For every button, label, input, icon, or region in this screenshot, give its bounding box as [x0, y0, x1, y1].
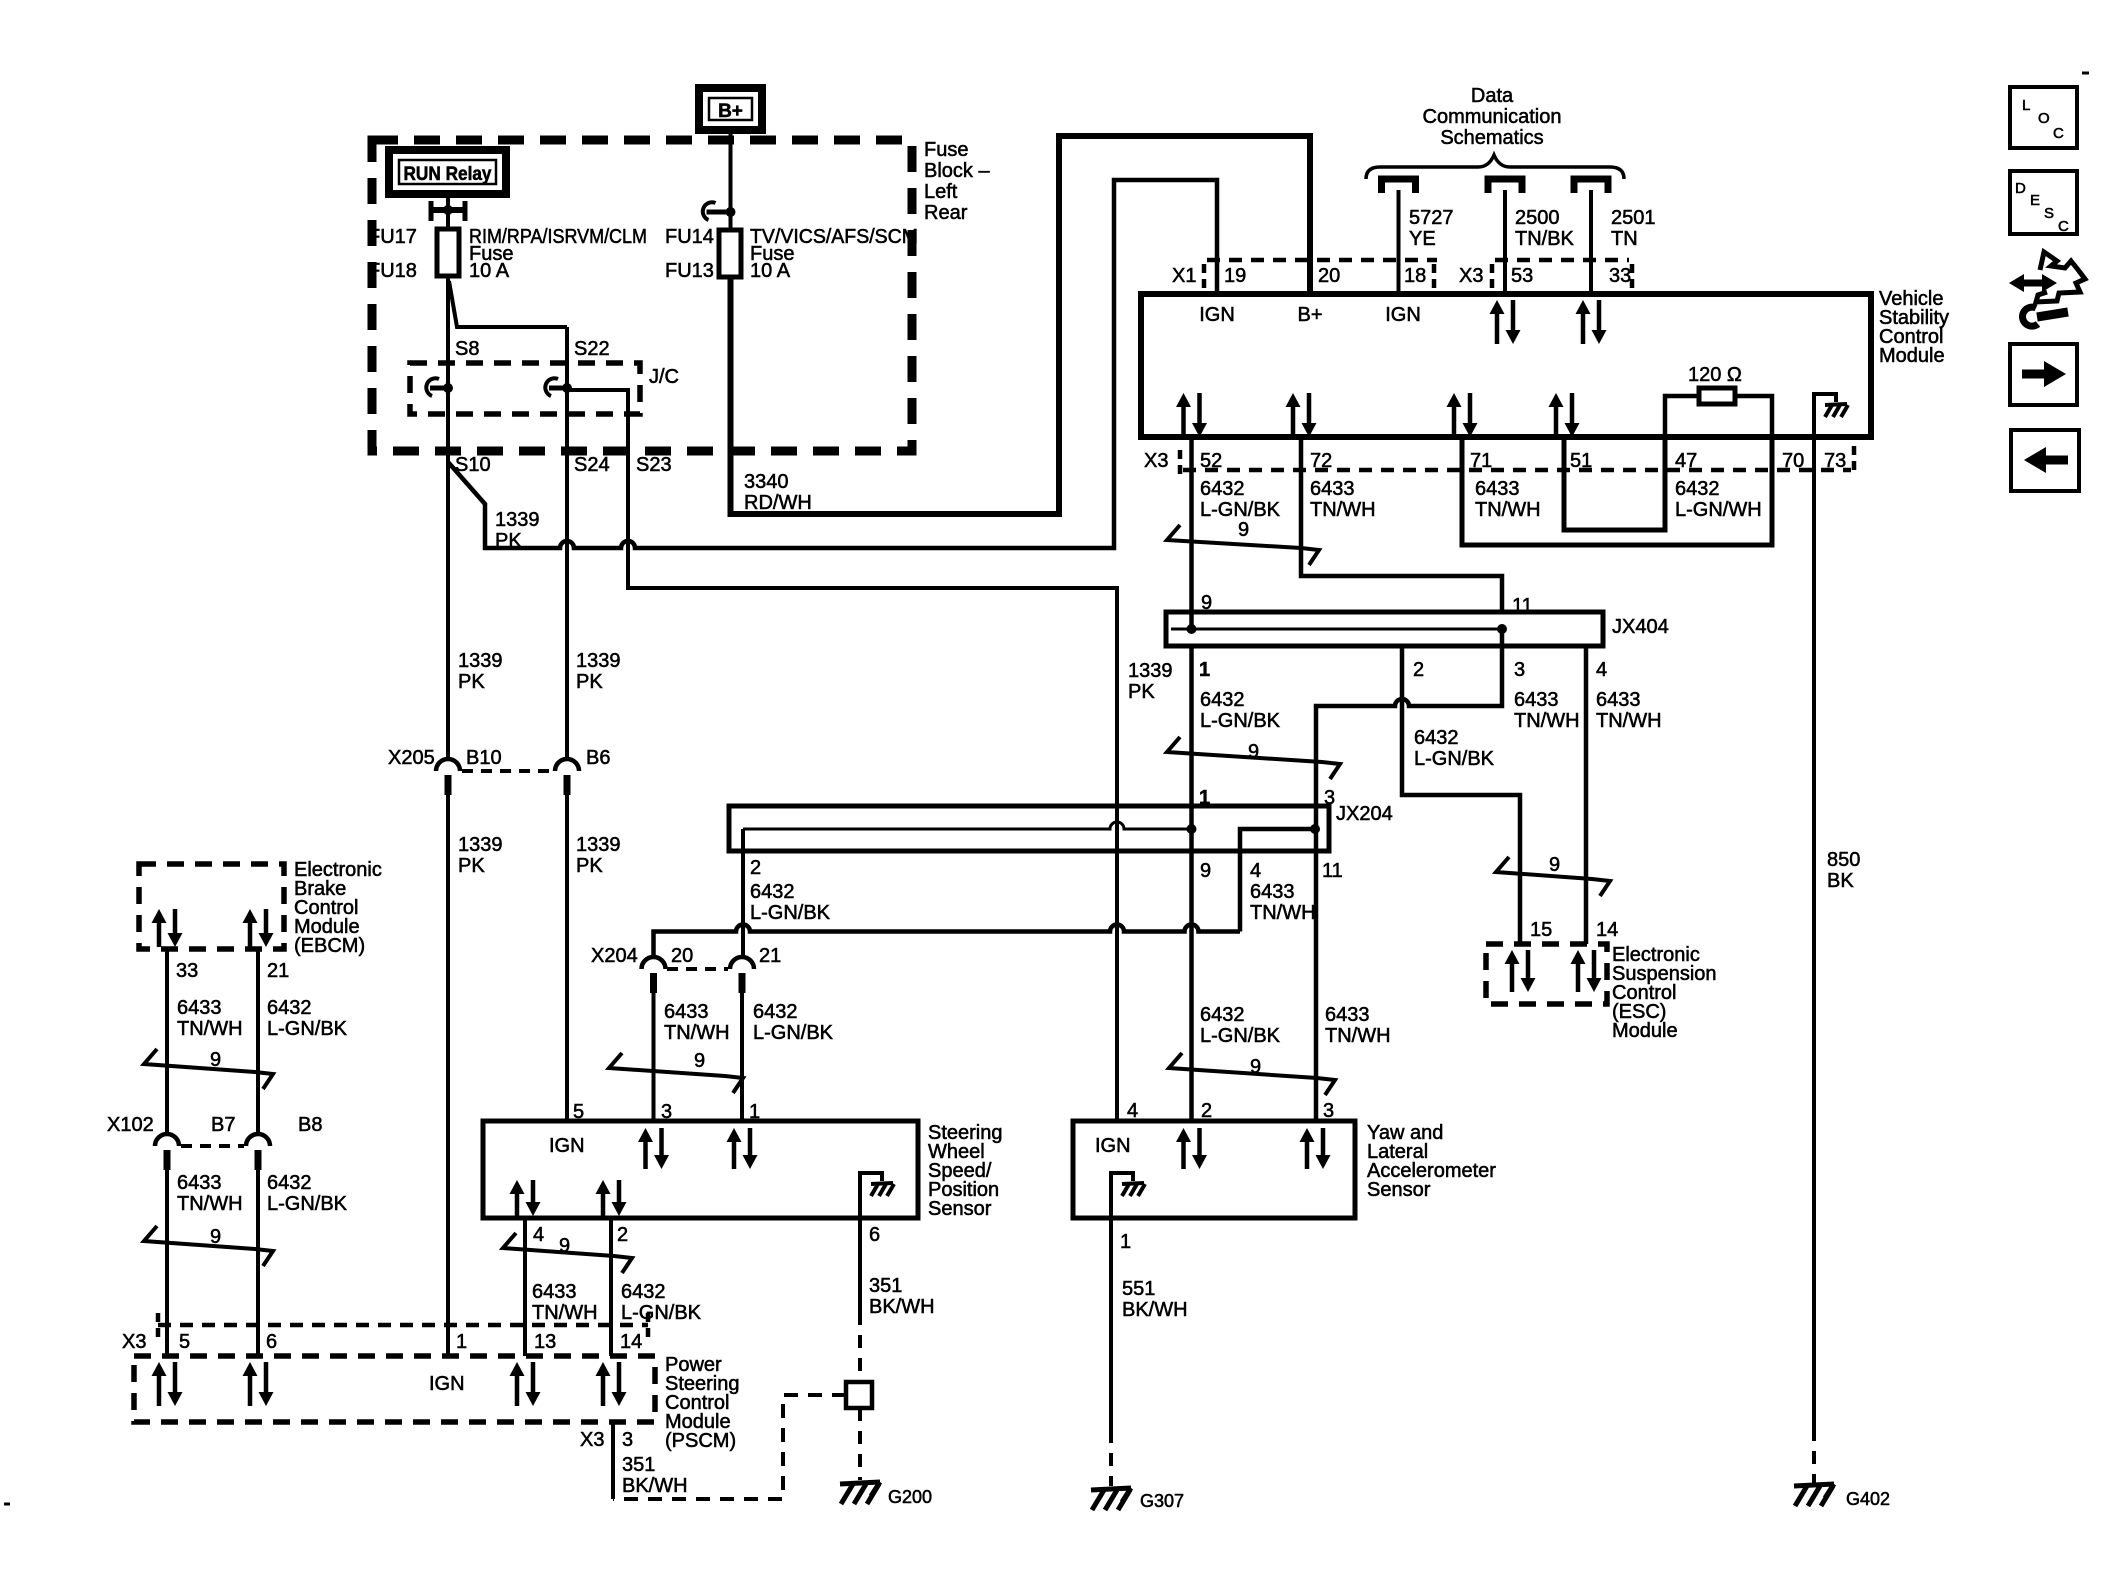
svg-text:6433: 6433	[177, 997, 222, 1019]
svg-text:10 A: 10 A	[750, 260, 791, 282]
wire JX404 pin 3 to yaw sensor pin 3 (6433 TN/WH)	[1316, 629, 1502, 1121]
svg-text:L-GN/BK: L-GN/BK	[267, 1018, 348, 1040]
svg-text:6432: 6432	[1414, 727, 1459, 749]
wire VSCM pin 72 to JX404 pin 11	[1301, 437, 1502, 614]
wire 6433 TN/WH EBCM 33 to X102 B7	[165, 949, 169, 1134]
svg-text:TN/WH: TN/WH	[1250, 902, 1316, 924]
svg-text:X205: X205	[388, 747, 435, 769]
svg-text:6432: 6432	[267, 997, 312, 1019]
ground hook VSCM pin 73	[1814, 394, 1836, 434]
wire 2501 TN to VSCM pin 33	[1589, 190, 1593, 294]
slash harness 9 (steering 4/2)	[503, 1233, 632, 1273]
svg-text:18: 18	[1404, 265, 1426, 287]
svg-text:G307: G307	[1140, 1491, 1184, 1511]
svg-text:PK: PK	[576, 855, 603, 877]
svg-text:6432: 6432	[621, 1281, 666, 1303]
connector drop 2500 TN/BK	[1488, 179, 1522, 193]
svg-text:13: 13	[534, 1331, 556, 1353]
svg-text:71: 71	[1470, 450, 1492, 472]
svg-text:JX404: JX404	[1612, 616, 1669, 638]
ground hook yaw pin 1	[1111, 1173, 1133, 1218]
connector drop 2501 TN	[1574, 179, 1608, 193]
svg-text:6433: 6433	[1596, 689, 1641, 711]
svg-text:6433: 6433	[1514, 689, 1559, 711]
svg-text:47: 47	[1675, 450, 1697, 472]
svg-text:21: 21	[267, 960, 289, 982]
svg-text:3: 3	[661, 1101, 672, 1123]
svg-text:3: 3	[1514, 659, 1525, 681]
svg-text:IGN: IGN	[1095, 1135, 1131, 1157]
wire 351 BK/WH PSCM X3-3	[611, 1422, 615, 1499]
svg-text:D: D	[2015, 180, 2026, 197]
svg-text:9: 9	[210, 1226, 221, 1248]
svg-text:21: 21	[759, 945, 781, 967]
svg-text:BK/WH: BK/WH	[869, 1296, 935, 1318]
svg-text:Sensor: Sensor	[1367, 1179, 1431, 1201]
svg-text:Fuse: Fuse	[924, 139, 968, 161]
svg-text:2: 2	[1413, 659, 1424, 681]
svg-text:52: 52	[1200, 450, 1222, 472]
svg-text:120 Ω: 120 Ω	[1688, 364, 1742, 386]
svg-text:1339: 1339	[1128, 660, 1173, 682]
relay RUN Relay (bold box)	[389, 150, 506, 194]
svg-text:3: 3	[1324, 787, 1335, 809]
svg-text:JX204: JX204	[1336, 803, 1393, 825]
svg-text:J/C: J/C	[649, 366, 679, 388]
svg-text:Module: Module	[1879, 345, 1945, 367]
svg-text:X1: X1	[1172, 265, 1196, 287]
svg-text:FU18: FU18	[368, 260, 417, 282]
wire relay output	[446, 194, 450, 229]
svg-text:15: 15	[1530, 919, 1552, 941]
svg-text:9: 9	[1549, 854, 1560, 876]
wire loop pin 71 to pin 70	[1462, 437, 1772, 545]
wire 6432 L-GN/BK X204-21 to steering pin 1	[740, 991, 744, 1121]
wire fuse FU18 output down to J/C S8 and X205 B10 and PSCM IGN	[446, 276, 450, 757]
svg-text:(PSCM): (PSCM)	[665, 1430, 736, 1452]
resistor 120 ohm termination	[1665, 396, 1772, 434]
svg-text:Rear: Rear	[924, 202, 968, 224]
wire branch S8 to S22	[449, 281, 567, 327]
svg-text:L-GN/BK: L-GN/BK	[753, 1022, 834, 1044]
svg-text:6432: 6432	[1200, 1004, 1245, 1026]
svg-text:X3: X3	[1144, 450, 1168, 472]
junction block J/C (dashed box)	[410, 363, 640, 414]
svg-text:IGN: IGN	[429, 1373, 465, 1395]
svg-text:PK: PK	[1128, 681, 1155, 703]
wire loop pin 51 to pin 47	[1564, 437, 1665, 530]
svg-text:S24: S24	[574, 454, 610, 476]
svg-text:Block –: Block –	[924, 160, 990, 182]
svg-text:6433: 6433	[1325, 1004, 1370, 1026]
svg-text:9: 9	[694, 1050, 705, 1072]
connector X204 pin 20	[642, 957, 666, 969]
svg-text:TN/WH: TN/WH	[1475, 499, 1541, 521]
svg-text:FU14: FU14	[665, 226, 714, 248]
arrows steering pin 3	[638, 1128, 653, 1142]
svg-text:6433: 6433	[1250, 881, 1295, 903]
svg-text:Data: Data	[1471, 85, 1514, 107]
svg-text:B+: B+	[718, 101, 743, 122]
svg-text:2501: 2501	[1611, 207, 1656, 229]
wire 6433 TN/WH X102 B7 to PSCM 5	[165, 1168, 169, 1356]
svg-text:TN/WH: TN/WH	[1514, 710, 1580, 732]
svg-text:L-GN/BK: L-GN/BK	[267, 1193, 348, 1215]
svg-text:PK: PK	[576, 671, 603, 693]
ground hook steering pin 6	[860, 1173, 882, 1218]
splice connector at fuse block feed	[707, 210, 731, 215]
svg-text:9: 9	[210, 1049, 221, 1071]
ground G307	[1091, 1488, 1131, 1490]
svg-text:Left: Left	[924, 181, 958, 203]
wire S23 from splice to yaw sensor IGN pin 4	[567, 390, 1117, 1121]
wire 850 BK pin 73 to G402	[1812, 437, 1816, 1428]
svg-text:L-GN/BK: L-GN/BK	[1200, 499, 1281, 521]
svg-text:1339: 1339	[458, 834, 503, 856]
svg-text:1339: 1339	[576, 834, 621, 856]
svg-text:L-GN/BK: L-GN/BK	[1414, 748, 1495, 770]
svg-text:70: 70	[1782, 450, 1804, 472]
svg-text:L-GN/BK: L-GN/BK	[750, 902, 831, 924]
svg-text:L: L	[2022, 97, 2030, 114]
connector X205 B6	[555, 759, 579, 771]
svg-text:TN/WH: TN/WH	[1325, 1025, 1391, 1047]
svg-text:Communication: Communication	[1423, 106, 1562, 128]
connector X205 B10	[436, 759, 460, 771]
svg-text:IGN: IGN	[549, 1135, 585, 1157]
wire 6433 TN/WH X204-20 to steering pin 3	[652, 991, 656, 1121]
module Electronic Suspension Control (ESC) dashed box	[1486, 944, 1607, 1004]
svg-text:TN: TN	[1611, 228, 1638, 250]
svg-text:PK: PK	[458, 855, 485, 877]
svg-text:S8: S8	[455, 338, 479, 360]
relay terminal bar	[430, 207, 466, 213]
svg-text:6433: 6433	[532, 1281, 577, 1303]
arrows steering pin 4	[510, 1180, 525, 1194]
svg-text:YE: YE	[1409, 228, 1436, 250]
svg-text:TN/WH: TN/WH	[177, 1193, 243, 1215]
wire JX204 internal bus 6433 with pin 4 leg	[1240, 829, 1315, 932]
arrows pin 53	[1490, 300, 1505, 314]
wire JX404 internal bus	[1171, 628, 1502, 631]
module Vehicle Stability Control Module box	[1141, 294, 1871, 437]
svg-text:2: 2	[617, 1224, 628, 1246]
wire 351 BK/WH steering 6 to G200	[858, 1218, 862, 1312]
svg-text:IGN: IGN	[1199, 304, 1235, 326]
svg-text:6432: 6432	[267, 1172, 312, 1194]
slash harness 9 (JX404 pins 1/3)	[1167, 737, 1340, 779]
svg-text:2: 2	[750, 857, 761, 879]
arrows ESC pin 15	[1505, 950, 1520, 964]
svg-text:11: 11	[1322, 860, 1343, 882]
wire B+ down to fuse FU14	[729, 130, 733, 230]
wire JX404 pin 4 to ESC pin 14 (6433 TN/WH)	[1584, 646, 1589, 944]
icon LOC box	[2010, 87, 2077, 148]
svg-text:L-GN/BK: L-GN/BK	[1200, 710, 1281, 732]
wire X204 dashed link	[667, 967, 728, 971]
svg-text:4: 4	[1250, 860, 1261, 882]
svg-text:351: 351	[622, 1454, 655, 1476]
wire X204 pin 20 to JX204 pin 4 (6433 TN/WH)	[654, 925, 1241, 957]
svg-text:TN/WH: TN/WH	[1310, 499, 1376, 521]
fuse block - left rear (dashed enclosure)	[372, 140, 912, 451]
svg-text:(EBCM): (EBCM)	[294, 935, 365, 957]
arrows pin 71	[1447, 393, 1462, 407]
splice S8/S10	[430, 386, 448, 391]
svg-text:14: 14	[1596, 919, 1618, 941]
svg-text:Module: Module	[1612, 1020, 1678, 1042]
wire 6433 TN/WH steering 4 to PSCM 13	[523, 1218, 527, 1356]
wire S22/S24 vertical	[565, 327, 569, 757]
slash harness 9 (EBCM)	[144, 1049, 273, 1089]
svg-text:5727: 5727	[1409, 207, 1454, 229]
connector row X3 bottom (dashed)	[1183, 468, 1851, 473]
svg-text:3: 3	[1323, 1100, 1334, 1122]
icon service information (arrows and wrench)	[2022, 280, 2044, 287]
svg-text:PK: PK	[458, 671, 485, 693]
svg-text:BK/WH: BK/WH	[622, 1475, 688, 1497]
svg-text:Schematics: Schematics	[1440, 127, 1543, 149]
splice S22/S24	[549, 386, 567, 391]
connector X102 B7	[155, 1134, 179, 1146]
svg-text:51: 51	[1570, 450, 1592, 472]
svg-text:RUN Relay: RUN Relay	[404, 164, 492, 185]
svg-text:B8: B8	[298, 1114, 322, 1136]
svg-text:PK: PK	[495, 530, 522, 552]
wire 1339 PK B6 to steering sensor pin 5 IGN	[565, 793, 569, 1121]
svg-text:5: 5	[573, 1101, 584, 1123]
wire dashed below splice box to G200	[858, 1408, 862, 1480]
svg-text:6433: 6433	[1475, 478, 1520, 500]
arrows yaw pin 2	[1176, 1128, 1191, 1142]
svg-text:S23: S23	[636, 454, 672, 476]
connector row X1 (dashed)	[1207, 258, 1437, 263]
svg-text:B7: B7	[211, 1114, 235, 1136]
svg-text:BK: BK	[1827, 870, 1854, 892]
svg-text:6: 6	[266, 1331, 277, 1353]
junction block JX404	[1166, 612, 1603, 646]
svg-text:2: 2	[1201, 1100, 1212, 1122]
module Power Steering Control Module (PSCM) dashed box	[134, 1356, 655, 1422]
arrows PSCM pin 6	[243, 1362, 258, 1376]
mark bottom left	[4, 1503, 10, 1506]
arrows PSCM pin 14	[596, 1362, 611, 1376]
svg-text:TN/WH: TN/WH	[1596, 710, 1662, 732]
arrows yaw pin 3	[1300, 1128, 1315, 1142]
arrows EBCM pin 21	[243, 909, 258, 923]
arrows EBCM pin 33	[152, 909, 167, 923]
arrows steering pin 2	[596, 1180, 611, 1194]
svg-text:X204: X204	[591, 945, 638, 967]
svg-text:S22: S22	[574, 338, 610, 360]
wire 551 BK/WH yaw 1 to G307	[1109, 1218, 1113, 1430]
svg-text:5: 5	[179, 1331, 190, 1353]
arrows pin 51	[1549, 393, 1564, 407]
wire 5727 YE to VSCM pin 18 IGN	[1397, 190, 1401, 294]
svg-text:11: 11	[1512, 595, 1533, 617]
wire 1339 PK feed to VSCM pin 19 IGN	[448, 180, 1217, 548]
wire 6432 L-GN/BK steering 2 to PSCM 14	[609, 1218, 613, 1356]
svg-text:10 A: 10 A	[469, 260, 510, 282]
ground G402	[1794, 1484, 1834, 1486]
svg-text:1339: 1339	[495, 509, 540, 531]
connector X204 pin 21	[730, 957, 754, 969]
svg-text:20: 20	[671, 945, 693, 967]
svg-text:9: 9	[1200, 860, 1211, 882]
arrows steering pin 1	[727, 1128, 742, 1142]
slash harness 9 (yaw 2/3)	[1169, 1053, 1335, 1095]
svg-text:6433: 6433	[177, 1172, 222, 1194]
arrows pin 52	[1176, 393, 1191, 407]
svg-text:X102: X102	[107, 1114, 154, 1136]
connector X102 B8	[246, 1134, 270, 1146]
svg-text:850: 850	[1827, 849, 1860, 871]
svg-text:6433: 6433	[1310, 478, 1355, 500]
slash harness 9 (pins 52/72)	[1167, 525, 1319, 565]
svg-text:FU17: FU17	[368, 226, 417, 248]
wire VSCM pin 52 to JX404 pin 9	[1189, 437, 1194, 629]
module Steering Wheel Speed/Position Sensor box	[483, 1121, 918, 1218]
svg-text:9: 9	[1238, 519, 1249, 541]
svg-text:B+: B+	[1297, 304, 1322, 326]
svg-text:53: 53	[1511, 265, 1533, 287]
svg-text:E: E	[2030, 192, 2040, 209]
arrows PSCM pin 13	[510, 1362, 525, 1376]
svg-text:1: 1	[456, 1331, 467, 1353]
arrows ESC pin 14	[1571, 950, 1586, 964]
svg-text:1339: 1339	[576, 650, 621, 672]
svg-text:TN/WH: TN/WH	[532, 1302, 598, 1324]
svg-text:RD/WH: RD/WH	[744, 492, 812, 514]
svg-text:B6: B6	[586, 747, 610, 769]
module Yaw and Lateral Accelerometer Sensor box	[1073, 1121, 1355, 1218]
svg-text:G402: G402	[1846, 1489, 1890, 1509]
svg-text:6432: 6432	[1200, 689, 1245, 711]
svg-text:Sensor: Sensor	[928, 1198, 992, 1220]
fuse FU17/FU18 RIM/RPA/ISRVM/CLM 10A	[437, 229, 459, 276]
svg-text:351: 351	[869, 1275, 902, 1297]
wire JX404 pin 1 to yaw sensor pin 2 (6432 L-GN/BK)	[1189, 646, 1194, 1121]
wire JX404 pin 2 to ESC pin 15 (6432 L-GN/BK)	[1402, 646, 1520, 944]
icon arrow right box	[2010, 344, 2077, 405]
svg-text:9: 9	[1248, 741, 1259, 763]
wire 3340 RD/WH from fuse FU13 to VSCM pin 20 B+	[731, 136, 1311, 514]
connector row X3 PSCM (dashed)	[158, 1323, 648, 1328]
brace under data communication label	[1366, 155, 1624, 179]
svg-text:G200: G200	[888, 1487, 932, 1507]
svg-text:19: 19	[1224, 265, 1246, 287]
svg-text:1: 1	[749, 1101, 760, 1123]
arrows pin 33	[1576, 300, 1591, 314]
svg-text:4: 4	[1127, 1100, 1138, 1122]
slash harness 9 (ESC wires)	[1496, 857, 1610, 896]
wire 6432 L-GN/BK X102 B8 to PSCM 6	[256, 1168, 260, 1356]
svg-text:73: 73	[1824, 450, 1846, 472]
junction block JX204	[729, 806, 1329, 851]
svg-text:X3: X3	[122, 1331, 146, 1353]
svg-text:C: C	[2053, 125, 2064, 142]
svg-text:L-GN/BK: L-GN/BK	[621, 1302, 702, 1324]
svg-text:TN/WH: TN/WH	[177, 1018, 243, 1040]
wire 2500 TN/BK to VSCM pin 53	[1503, 190, 1507, 294]
wire JX204 internal bus 6432	[743, 822, 1192, 829]
wire X102 dashed link	[181, 1144, 244, 1148]
svg-text:C: C	[2058, 218, 2069, 235]
svg-text:6432: 6432	[753, 1001, 798, 1023]
svg-text:1339: 1339	[458, 650, 503, 672]
svg-text:33: 33	[176, 960, 198, 982]
svg-text:TN/BK: TN/BK	[1515, 228, 1575, 250]
svg-text:2500: 2500	[1515, 207, 1560, 229]
svg-text:6432: 6432	[750, 881, 795, 903]
svg-text:BK/WH: BK/WH	[1122, 1299, 1188, 1321]
mark top right	[2082, 72, 2089, 75]
svg-text:IGN: IGN	[1385, 304, 1421, 326]
svg-text:551: 551	[1122, 1278, 1155, 1300]
svg-text:FU13: FU13	[665, 260, 714, 282]
svg-text:6: 6	[869, 1224, 880, 1246]
icon DESC box	[2010, 171, 2077, 234]
svg-text:S: S	[2044, 205, 2054, 222]
svg-text:B10: B10	[466, 747, 502, 769]
svg-text:X3: X3	[1459, 265, 1483, 287]
svg-text:72: 72	[1310, 450, 1332, 472]
svg-text:6432: 6432	[1675, 478, 1720, 500]
wire 1339 PK B10 to PSCM pin 1 IGN	[446, 793, 450, 1356]
svg-text:4: 4	[1596, 659, 1607, 681]
svg-text:1: 1	[1199, 787, 1210, 809]
svg-text:6432: 6432	[1200, 478, 1245, 500]
arrows PSCM pin 5	[152, 1362, 167, 1376]
svg-text:14: 14	[620, 1331, 642, 1353]
svg-text:1: 1	[1120, 1231, 1131, 1253]
wire X205 dashed link	[462, 769, 553, 773]
svg-text:9: 9	[1250, 1056, 1261, 1078]
connector row X3 top (dashed)	[1495, 258, 1629, 263]
svg-text:X3: X3	[580, 1429, 604, 1451]
wire 6432 L-GN/BK EBCM 21 to X102 B8	[256, 949, 260, 1134]
svg-text:6433: 6433	[664, 1001, 709, 1023]
svg-text:L-GN/WH: L-GN/WH	[1675, 499, 1762, 521]
power symbol B+ (bold box)	[699, 88, 762, 130]
module Electronic Brake Control Module (EBCM) dashed box	[139, 864, 284, 949]
connector drop 5727 YE	[1382, 179, 1416, 193]
svg-text:4: 4	[533, 1224, 544, 1246]
arrows pin 72	[1286, 393, 1301, 407]
svg-text:1: 1	[1199, 659, 1210, 681]
svg-text:33: 33	[1609, 265, 1631, 287]
svg-text:20: 20	[1318, 265, 1340, 287]
slash harness 9 (X102)	[144, 1226, 273, 1266]
fuse FU14/FU13 TV/VICS/AFS/SCM 10A	[719, 230, 741, 277]
ground G200	[840, 1482, 880, 1484]
svg-text:3340: 3340	[744, 471, 789, 493]
svg-text:9: 9	[1201, 592, 1212, 614]
wire dashed PSCM X3-3 branch to splice box	[613, 1395, 846, 1499]
wire JX204 pin 2 to X204 pin 21	[741, 829, 745, 957]
splice box G200 junction	[846, 1382, 872, 1408]
svg-text:TN/WH: TN/WH	[664, 1022, 730, 1044]
svg-text:9: 9	[559, 1235, 570, 1257]
icon arrow left box	[2011, 430, 2079, 491]
svg-text:O: O	[2038, 110, 2050, 127]
svg-text:L-GN/BK: L-GN/BK	[1200, 1025, 1281, 1047]
svg-text:3: 3	[622, 1429, 633, 1451]
slash harness 9 (steering 3/1)	[609, 1053, 743, 1093]
